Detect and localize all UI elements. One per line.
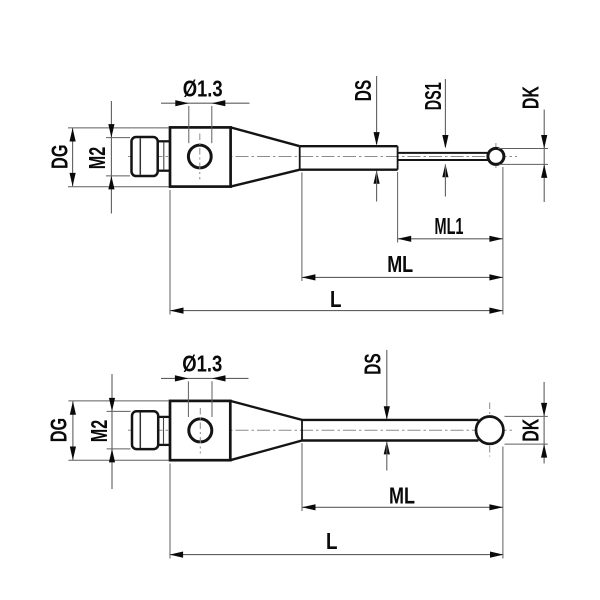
dim DS top [350, 76, 380, 202]
dim DK bottom [505, 382, 548, 464]
svg-text:M2: M2 [84, 147, 110, 170]
top stem DS [300, 146, 398, 170]
top neck [158, 141, 171, 170]
svg-text:DS: DS [360, 353, 386, 375]
dim O1.3 bottom [161, 351, 249, 418]
svg-text:DK: DK [517, 418, 543, 441]
dim L bottom [170, 447, 504, 559]
dim ML top [302, 173, 503, 282]
svg-text:Ø1.3: Ø1.3 [182, 351, 222, 377]
svg-text:L: L [326, 528, 338, 554]
dim DK top [498, 86, 548, 202]
top body block [170, 127, 231, 186]
svg-text:ML: ML [389, 483, 415, 509]
svg-text:ML1: ML1 [435, 213, 464, 239]
dim L top [170, 167, 503, 315]
svg-text:M2: M2 [86, 420, 112, 443]
dim ML1 top [398, 172, 503, 243]
dim DG top [47, 128, 170, 187]
svg-text:DK: DK [518, 86, 544, 109]
top thread stub M2 [132, 137, 158, 176]
dim ML bottom [302, 443, 503, 511]
bottom ball centerline [489, 403, 491, 457]
dim M2 top [84, 101, 130, 214]
top ball DK [488, 148, 504, 164]
bottom neck [158, 417, 170, 445]
bottom stem DS [302, 420, 479, 441]
dim M2 bottom [86, 374, 131, 489]
top hole circle [188, 145, 211, 168]
dim DG bottom [45, 401, 169, 460]
bottom ball DK [476, 417, 503, 444]
dim DS bottom [360, 350, 390, 471]
bottom view centerline [128, 429, 513, 431]
bottom hole centerline [199, 408, 201, 454]
top cone [231, 127, 300, 186]
svg-text:L: L [330, 286, 342, 312]
bottom thread stub M2 [132, 411, 158, 449]
dim O1.3 top [161, 76, 250, 144]
svg-text:DG: DG [47, 144, 73, 169]
top hole centerline [199, 134, 201, 180]
bottom cone [230, 401, 302, 460]
bottom hole circle [189, 419, 212, 442]
dim DS1 top [420, 79, 449, 197]
svg-text:ML: ML [387, 251, 413, 277]
svg-text:DS: DS [350, 80, 376, 102]
bottom body block [170, 401, 230, 460]
top stem DS1 [398, 153, 490, 160]
svg-text:DG: DG [45, 418, 71, 443]
top ball centerline [495, 143, 497, 171]
svg-text:DS1: DS1 [420, 82, 446, 110]
top view centerline [128, 156, 517, 158]
svg-text:Ø1.3: Ø1.3 [183, 76, 223, 102]
